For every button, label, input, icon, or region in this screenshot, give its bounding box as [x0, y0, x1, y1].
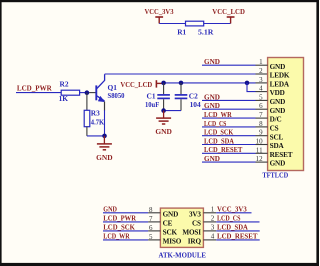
svg-text:CS: CS: [192, 219, 201, 227]
pin stub ATK pin 1: [203, 212, 216, 214]
svg-text:LCD_RESET: LCD_RESET: [217, 231, 257, 240]
wire ATK pin 8: [103, 212, 148, 214]
svg-text:8: 8: [149, 206, 153, 214]
pin stub TFTLCD pin 4: [256, 91, 268, 93]
svg-text:GND: GND: [163, 210, 179, 218]
svg-text:11: 11: [256, 146, 263, 154]
wire R3 to emitter node: [87, 135, 105, 137]
svg-text:VCC_3V3: VCC_3V3: [217, 204, 247, 213]
svg-text:GND: GND: [204, 154, 220, 163]
svg-text:4: 4: [211, 233, 215, 241]
svg-text:LCD_CS: LCD_CS: [204, 119, 226, 128]
svg-text:VCC_LCD: VCC_LCD: [120, 80, 152, 89]
svg-text:TFTLCD: TFTLCD: [262, 171, 288, 180]
svg-text:ATK-MODULE: ATK-MODULE: [159, 250, 207, 259]
svg-text:D/C: D/C: [270, 116, 282, 124]
svg-text:GND: GND: [270, 63, 286, 71]
wire ATK pin 5: [103, 239, 148, 241]
svg-text:LCD_CS: LCD_CS: [217, 213, 241, 222]
connector ATK-MODULE body: [160, 208, 203, 247]
wire TFTLCD pin 7: [202, 117, 256, 119]
svg-text:LCD_WR: LCD_WR: [103, 232, 130, 241]
pin stub TFTLCD pin 2: [256, 73, 268, 75]
svg-text:7: 7: [149, 215, 153, 223]
svg-text:SCL: SCL: [270, 133, 284, 141]
junction node C2: [179, 81, 184, 86]
svg-text:IRQ: IRQ: [188, 237, 202, 245]
svg-text:GND: GND: [103, 205, 117, 214]
wire ATK pin 2: [216, 221, 259, 223]
svg-text:GND: GND: [270, 160, 286, 168]
svg-text:12: 12: [256, 155, 264, 163]
pin stub ATK pin 5: [148, 239, 160, 241]
transistor Q1 S8050: [96, 74, 124, 110]
svg-text:CE: CE: [163, 219, 173, 227]
power port VCC_3V3: [145, 7, 174, 24]
pin stub Q1 base: [89, 92, 95, 94]
pin stub TFTLCD pin 6: [256, 108, 268, 110]
svg-text:GND: GND: [96, 153, 113, 162]
ground (Q1 emitter): [96, 136, 113, 162]
pin stub TFTLCD pin 7: [256, 117, 268, 119]
power port VCC_LCD (mid): [120, 80, 163, 89]
wire ATK pin 3: [216, 230, 260, 232]
wire ATK pin 7: [103, 221, 148, 223]
resistor R2 1K: [59, 80, 80, 103]
wire TFTLCD pin 11: [202, 152, 256, 154]
pin stub ATK pin 6: [148, 230, 160, 232]
svg-text:1: 1: [259, 58, 263, 66]
wire R3 bottom: [86, 127, 88, 136]
svg-text:1K: 1K: [59, 94, 69, 103]
svg-text:LCD_SCK: LCD_SCK: [103, 223, 135, 232]
wire drop to TFTLCD pin 4: [247, 83, 256, 92]
wire ATK pin 4: [216, 239, 260, 241]
svg-text:GND: GND: [204, 101, 220, 110]
svg-text:SDA: SDA: [270, 142, 285, 150]
svg-text:3: 3: [211, 224, 215, 232]
pin stub TFTLCD pin 5: [256, 99, 268, 101]
wire R2 to Q1 base: [80, 92, 90, 94]
wire VCC_3V3 to R1: [159, 23, 185, 25]
wire LCD_PWR to R2: [16, 92, 61, 94]
junction node pin4 drop: [245, 81, 250, 86]
pin stub ATK pin 4: [203, 239, 216, 241]
junction node emitter/R3: [102, 134, 107, 139]
wire TFTLCD pin 10: [202, 144, 256, 146]
svg-text:6: 6: [259, 102, 263, 110]
svg-text:8: 8: [259, 120, 263, 128]
svg-text:2: 2: [211, 215, 215, 223]
svg-text:7: 7: [259, 111, 263, 119]
pin stub TFTLCD pin 1: [256, 64, 268, 66]
wire TFTLCD pin 6: [202, 108, 256, 110]
svg-text:R3: R3: [91, 108, 100, 117]
wire TFTLCD pin 9: [202, 135, 256, 137]
svg-text:10uF: 10uF: [145, 100, 160, 109]
power port VCC_LCD (top): [212, 7, 245, 24]
ground (C1/C2): [155, 111, 172, 136]
wire ATK pin 6: [103, 230, 148, 232]
svg-text:LCD_SDA: LCD_SDA: [217, 222, 248, 231]
svg-text:LEDA: LEDA: [270, 80, 290, 88]
svg-text:S8050: S8050: [108, 91, 125, 100]
wire ATK pin 1: [216, 212, 251, 214]
svg-text:4.7K: 4.7K: [91, 117, 105, 126]
pin stub ATK pin 3: [203, 230, 216, 232]
svg-text:5: 5: [149, 233, 153, 241]
wire junction down to R3: [86, 93, 88, 111]
svg-text:104: 104: [190, 100, 201, 109]
wire TFTLCD pin 5: [202, 99, 256, 101]
svg-text:RESET: RESET: [270, 151, 293, 159]
svg-text:5.1R: 5.1R: [198, 27, 214, 36]
svg-text:R2: R2: [60, 80, 69, 89]
svg-text:VDD: VDD: [270, 89, 285, 97]
connector U: TFTLCD body: [268, 58, 304, 171]
pin stub TFTLCD pin 11: [256, 152, 268, 154]
svg-text:GND: GND: [270, 107, 286, 115]
pin stub TFTLCD pin 9: [256, 135, 268, 137]
svg-text:3: 3: [259, 76, 263, 84]
svg-text:4: 4: [259, 85, 263, 93]
svg-text:GND: GND: [270, 98, 286, 106]
pin stub TFTLCD pin 3: [256, 82, 268, 84]
wire TFTLCD pin 1: [202, 64, 256, 66]
svg-text:2: 2: [259, 67, 263, 75]
wire Q1 collector to TFTLCD pin 2: [105, 73, 256, 75]
svg-text:LCD_SCK: LCD_SCK: [204, 128, 233, 137]
svg-text:LEDK: LEDK: [270, 72, 290, 80]
capacitor C2 104: [175, 83, 201, 111]
svg-text:LCD_WR: LCD_WR: [204, 110, 232, 119]
wire VCC_LCD rail to TFTLCD pin 3: [164, 82, 256, 84]
capacitor C1 10uF: [145, 83, 170, 111]
svg-text:GND: GND: [155, 127, 172, 136]
resistor R3 4.7K: [84, 108, 104, 126]
svg-text:VCC_LCD: VCC_LCD: [212, 7, 245, 16]
svg-text:LCD_SDA: LCD_SDA: [204, 136, 234, 145]
wire C2 bottom to C1 bottom: [164, 110, 181, 112]
svg-text:GND: GND: [204, 57, 220, 66]
junction node base/R3: [85, 90, 90, 95]
pin stub TFTLCD pin 10: [256, 144, 268, 146]
pin stub TFTLCD pin 8: [256, 126, 268, 128]
pin stub ATK pin 8: [148, 212, 160, 214]
svg-text:LCD_PWR: LCD_PWR: [17, 83, 52, 92]
junction node cap gnd: [161, 108, 166, 113]
svg-text:6: 6: [149, 224, 153, 232]
svg-text:5: 5: [259, 93, 263, 101]
svg-text:10: 10: [256, 138, 264, 146]
svg-text:MOSI: MOSI: [182, 228, 201, 236]
svg-text:LCD_PWR: LCD_PWR: [103, 214, 136, 223]
svg-text:LCD_RESET: LCD_RESET: [204, 145, 242, 154]
svg-text:1: 1: [211, 206, 215, 214]
pin stub TFTLCD pin 12: [256, 161, 268, 163]
wire Q1 emitter down: [104, 110, 106, 136]
svg-text:GND: GND: [204, 92, 220, 101]
pin stub ATK pin 7: [148, 221, 160, 223]
svg-text:CS: CS: [270, 125, 279, 133]
svg-text:VCC_3V3: VCC_3V3: [145, 7, 174, 16]
resistor R1 5.1R: [177, 21, 214, 36]
svg-text:9: 9: [259, 129, 263, 137]
svg-text:R1: R1: [177, 27, 186, 36]
junction node C1: [161, 81, 166, 86]
wire R1 to VCC_LCD: [204, 23, 231, 25]
svg-text:SCK: SCK: [163, 228, 178, 236]
svg-text:3V3: 3V3: [189, 210, 201, 218]
svg-text:MISO: MISO: [163, 237, 182, 245]
pin stub ATK pin 2: [203, 221, 216, 223]
wire TFTLCD pin 12: [202, 161, 256, 163]
wire TFTLCD pin 8: [202, 126, 256, 128]
